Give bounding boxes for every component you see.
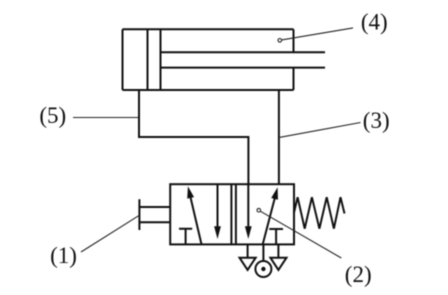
svg-text:(3): (3) [363, 108, 390, 133]
svg-text:(5): (5) [39, 103, 66, 128]
svg-text:(2): (2) [345, 262, 372, 287]
svg-text:(1): (1) [50, 243, 77, 268]
svg-text:(4): (4) [361, 9, 388, 34]
